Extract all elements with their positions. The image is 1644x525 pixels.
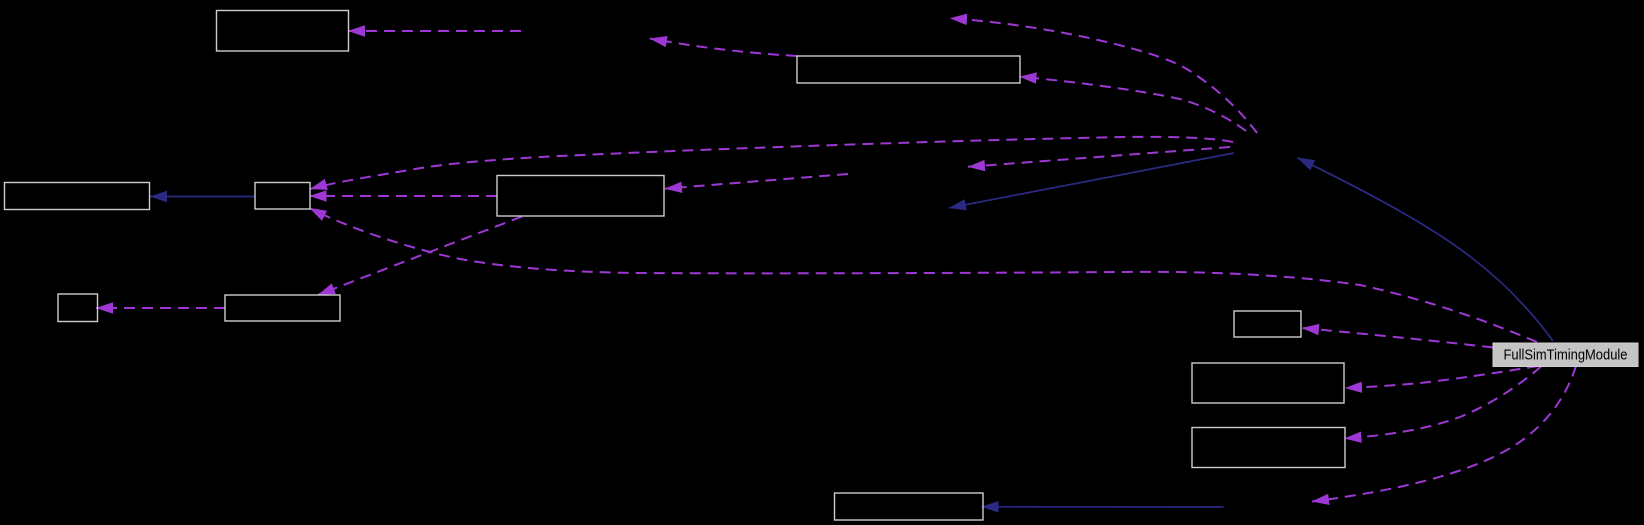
svg-text:FullSimTimingModule: FullSimTimingModule xyxy=(1504,348,1628,364)
